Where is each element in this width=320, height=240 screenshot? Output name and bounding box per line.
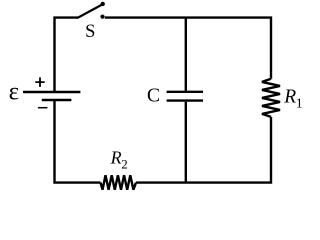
capacitor branch wire upper — [185, 18, 187, 91]
svg-text:R: R — [110, 148, 122, 168]
wire bottom-left segment up to battery — [55, 101, 101, 183]
svg-text:C: C — [147, 86, 160, 107]
wire top-left segment and left wire down to battery — [55, 18, 79, 91]
capacitor C top plate — [167, 91, 203, 93]
wire right segment below R1 to bottom-right corner, to R2 — [136, 117, 271, 183]
battery short plate (-) — [42, 99, 72, 101]
svg-text:R: R — [283, 87, 296, 108]
capacitor C bottom plate — [167, 99, 203, 101]
resistor R2 zigzag — [101, 175, 137, 190]
svg-text:ε: ε — [9, 79, 20, 106]
svg-text:2: 2 — [121, 156, 128, 171]
capacitor branch wire lower — [185, 102, 187, 183]
svg-text:1: 1 — [296, 95, 303, 110]
battery long plate (+) — [23, 91, 80, 93]
battery + sign — [35, 77, 44, 87]
switch lower contact dot — [100, 15, 104, 19]
wire top segment from switch to top-right corner, down to R1 — [105, 18, 271, 79]
resistor R1 zigzag — [262, 79, 280, 117]
battery - sign — [38, 107, 48, 109]
switch S lever — [78, 5, 102, 18]
svg-text:S: S — [85, 22, 95, 42]
switch upper contact dot — [101, 2, 105, 6]
